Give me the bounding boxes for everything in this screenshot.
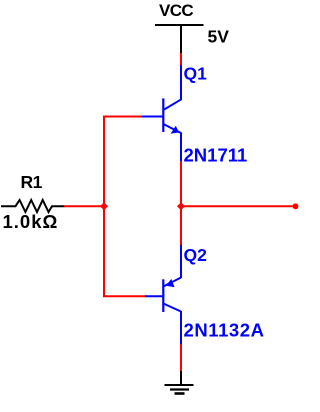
wire output bbox=[181, 205, 294, 207]
svg-text:Q1: Q1 bbox=[184, 64, 208, 84]
ground bbox=[165, 371, 194, 394]
node output terminal bbox=[293, 203, 299, 209]
resistor R1 bbox=[1, 200, 65, 212]
wire R1 to junction A bbox=[64, 205, 105, 207]
svg-text:R1: R1 bbox=[21, 172, 43, 192]
wire junction A to Q2 base bbox=[104, 206, 146, 296]
svg-text:5V: 5V bbox=[208, 26, 230, 46]
VCC power symbol bbox=[155, 24, 204, 53]
wire VCC to Q1 collector bbox=[180, 53, 182, 66]
wire junction A to Q1 base bbox=[104, 117, 142, 207]
svg-text:2N1711: 2N1711 bbox=[184, 145, 248, 166]
svg-text:1.0kΩ: 1.0kΩ bbox=[3, 211, 59, 232]
junction A bbox=[100, 202, 108, 210]
wire Q2 collector to ground bbox=[180, 344, 182, 372]
wire Q1 emitter to junction B bbox=[180, 161, 182, 208]
transistor Q2 bbox=[145, 245, 181, 345]
junction B bbox=[177, 202, 185, 210]
svg-text:VCC: VCC bbox=[159, 1, 193, 20]
wire junction B to Q2 emitter bbox=[180, 206, 182, 245]
svg-text:2N1132A: 2N1132A bbox=[184, 320, 265, 341]
transistor Q1 bbox=[141, 65, 181, 162]
svg-text:Q2: Q2 bbox=[184, 245, 208, 265]
